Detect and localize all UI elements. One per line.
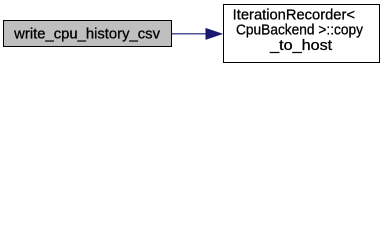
wire: call edge <box>172 33 208 35</box>
svg-text:IterationRecorder<: IterationRecorder< <box>233 7 355 23</box>
arrowhead <box>206 29 222 40</box>
svg-text:write_cpu_history_csv: write_cpu_history_csv <box>13 27 161 43</box>
call graph: write_cpu_history_csv -> IterationRecorder<CpuBackend>::copy_to_host <box>0 0 385 67</box>
svg-text:CpuBackend >::copy: CpuBackend >::copy <box>236 22 364 38</box>
node write_cpu_history_csv (grey box) <box>4 21 172 47</box>
node IterationRecorder<CpuBackend>::copy_to_host (white box) <box>224 5 380 63</box>
svg-text:_to_host: _to_host <box>269 38 332 54</box>
